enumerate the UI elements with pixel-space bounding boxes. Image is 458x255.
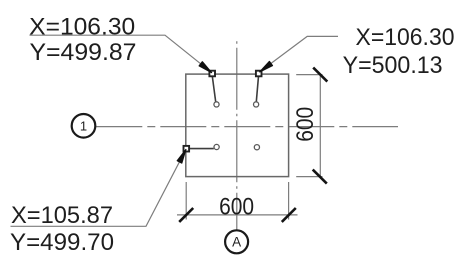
dimension 600 right: top tick: [313, 68, 327, 82]
anchor bolt head top-left: [214, 102, 219, 107]
dimension 600 right: extension line top: [296, 74, 322, 76]
dimension 600 bottom: dimension line: [177, 214, 298, 216]
anchor bolt stem top-right: [256, 76, 258, 102]
dimension 600 bottom: extension line left: [185, 182, 187, 220]
anchor bolt stem top-left: [212, 76, 215, 102]
leader arrowhead top-left: [199, 62, 212, 73]
leader line bottom-left: [11, 150, 186, 227]
anchor bolt head top-right: [254, 102, 259, 107]
svg-text:X=105.87: X=105.87: [11, 202, 113, 229]
anchor bolt head right: [254, 145, 259, 150]
svg-text:A: A: [232, 235, 241, 250]
survey marker top-right: [256, 71, 262, 77]
anchor bolt head left: [214, 144, 219, 149]
horizontal centerline: [96, 126, 398, 128]
leader arrowhead bottom-left: [177, 150, 186, 164]
svg-text:Y=499.70: Y=499.70: [10, 229, 114, 255]
grid bubble 1: [72, 114, 96, 138]
dimension 600 bottom: right tick: [282, 208, 296, 222]
dimension 600 right: extension line bottom: [296, 176, 322, 178]
leader line top-right: [260, 36, 338, 71]
dimension 600 right: dimension line: [319, 75, 321, 177]
svg-text:600: 600: [292, 107, 319, 142]
dimension 600 bottom: extension line right: [288, 182, 290, 220]
leader arrowhead top-right: [260, 61, 273, 72]
vertical centerline: [236, 41, 238, 230]
svg-text:X=106.30: X=106.30: [356, 24, 455, 51]
svg-text:Y=499.87: Y=499.87: [30, 39, 137, 66]
svg-text:600: 600: [219, 194, 254, 221]
svg-text:X=106.30: X=106.30: [29, 13, 135, 40]
survey marker left: [184, 146, 190, 152]
base plate outline: [186, 74, 289, 177]
dimension 600 right: bottom tick: [313, 170, 327, 184]
svg-text:1: 1: [80, 119, 87, 134]
svg-text:Y=500.13: Y=500.13: [343, 52, 443, 79]
grid bubble A: [225, 230, 248, 253]
survey marker top-left: [209, 71, 215, 77]
leader line top-left: [30, 35, 212, 72]
anchor bolt stem left: [189, 148, 214, 150]
dimension 600 bottom: left tick: [179, 208, 193, 222]
